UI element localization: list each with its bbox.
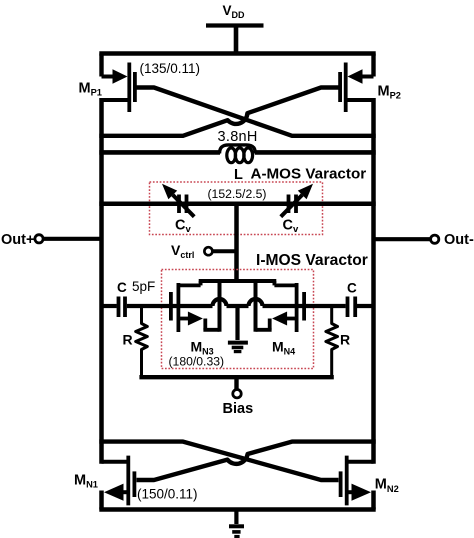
transistor MN3 — [171, 281, 220, 332]
wire inductor rail right — [255, 150, 376, 155]
svg-text:C: C — [117, 280, 127, 295]
svg-text:R: R — [123, 332, 133, 348]
wire Bias stub — [234, 377, 238, 389]
wire bottom cross-couple line2 with hop (right rail to MN1 gate) — [137, 442, 376, 480]
svg-text:5pF: 5pF — [132, 279, 155, 294]
wire left tank vertical — [99, 98, 104, 464]
wire IMOS tie bar left — [218, 281, 222, 332]
wire VDD stub — [234, 26, 239, 54]
svg-text:I-MOS Varactor: I-MOS Varactor — [256, 252, 368, 269]
svg-text:(150/0.11): (150/0.11) — [137, 487, 198, 502]
wire center vertical (varactor node down to IMOS rail) — [234, 204, 239, 281]
transistor MN4 — [256, 281, 305, 332]
wire Bias rail — [139, 375, 333, 379]
inductor L coil — [220, 145, 256, 163]
wire Vctrl stub — [213, 249, 237, 253]
transistor MN2 — [341, 456, 374, 506]
node Out- terminal — [431, 235, 439, 243]
wire left source drop — [99, 491, 104, 510]
svg-text:Out+: Out+ — [1, 232, 34, 248]
svg-text:(152.5/2.5): (152.5/2.5) — [208, 187, 267, 201]
node Vctrl terminal — [204, 247, 212, 255]
capacitor C left — [102, 297, 213, 318]
wire bottom cross-couple line1 (left rail to MN2 gate) — [99, 442, 338, 480]
A-MOS varactor red dashed box — [150, 182, 323, 235]
svg-text:(135/0.11): (135/0.11) — [140, 61, 201, 76]
VDD supply bar — [206, 23, 264, 27]
svg-text:3.8nH: 3.8nH — [218, 129, 258, 145]
wire right source drop — [371, 491, 376, 510]
node Out+ terminal — [35, 235, 43, 243]
wire cross-couple A (MP1 gate to right rail) — [137, 88, 376, 136]
svg-text:(180/0.33): (180/0.33) — [169, 355, 225, 369]
wire IMOS gate line hops — [213, 299, 263, 306]
wire inductor rail left — [99, 150, 220, 155]
wire right VDD drop — [371, 54, 375, 77]
varactor Cv right — [281, 184, 313, 217]
ground (main) — [229, 510, 244, 537]
svg-text:R: R — [340, 332, 350, 348]
svg-text:A-MOS Varactor: A-MOS Varactor — [251, 166, 367, 183]
resistor R right — [326, 306, 338, 377]
transistor MP1 — [102, 63, 135, 113]
wire Out+ stub — [44, 237, 102, 241]
I-MOS varactor red dashed box — [162, 270, 314, 369]
wire Out- stub — [374, 237, 431, 241]
node Bias terminal — [233, 390, 241, 398]
transistor MP2 — [340, 63, 373, 113]
svg-text:Bias: Bias — [223, 401, 254, 417]
wire right tank vertical — [371, 98, 376, 464]
wire IMOS tie bar right — [254, 281, 258, 332]
wire varactor row — [99, 201, 375, 206]
svg-text:Out-: Out- — [444, 232, 474, 248]
wire bottom rail — [99, 507, 375, 512]
resistor R left — [136, 306, 148, 377]
svg-text:L: L — [234, 167, 243, 183]
wire cross-couple B with hop (MP2 gate to left rail) — [99, 88, 340, 136]
wire IMOS top rail — [199, 279, 277, 283]
ground (IMOS bulk) — [228, 306, 248, 352]
wire left VDD drop — [99, 54, 103, 77]
transistor MN1 — [102, 456, 135, 506]
capacitor C right — [263, 297, 374, 318]
wire top rail — [99, 51, 375, 56]
varactor Cv left — [162, 184, 194, 217]
svg-text:C: C — [347, 281, 357, 296]
